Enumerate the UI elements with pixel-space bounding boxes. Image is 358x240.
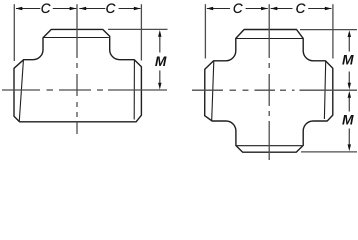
svg-text:M: M bbox=[155, 54, 167, 69]
arrowhead up (to top of branch) bbox=[158, 30, 161, 37]
cross horizontal center line bbox=[192, 89, 357, 91]
svg-text:M: M bbox=[342, 52, 354, 67]
tee branch weld-bevel line bbox=[43, 37, 109, 39]
cross vertical center line bbox=[268, 4, 270, 160]
tee left extension line bbox=[13, 4, 15, 61]
arrowhead to center (points right) bbox=[261, 7, 268, 10]
arrowhead up (to center line) bbox=[348, 91, 351, 98]
cross C dimension line, left half bbox=[207, 8, 268, 10]
tee body outline bbox=[14, 29, 141, 121]
cross bottom M dimension line bbox=[348, 98, 350, 145]
arrowhead down (to bottom of branch) bbox=[348, 144, 351, 151]
arrowhead down (to center line) bbox=[158, 83, 161, 90]
svg-text:C: C bbox=[106, 1, 116, 16]
tee horizontal center line bbox=[2, 89, 167, 91]
cross top-right extension line (for M) bbox=[300, 29, 357, 31]
cross bottom branch bevel line bbox=[236, 145, 302, 147]
tee right end bevel line bbox=[133, 60, 135, 119]
cross bottom-right extension line (for M) bbox=[301, 151, 357, 153]
tee left end bevel line bbox=[19, 60, 23, 121]
cross body outline bbox=[205, 30, 333, 153]
tee M dimension line bbox=[159, 36, 161, 84]
tee vertical center line bbox=[76, 4, 78, 134]
arrowhead from center (points left) bbox=[271, 7, 278, 10]
tee C dimension line, right half bbox=[79, 8, 140, 10]
tee top-right extension line (for M) bbox=[108, 28, 168, 30]
arrowhead up (to top of branch) bbox=[348, 30, 351, 37]
arrowhead down (to center line) bbox=[348, 83, 351, 90]
arrowhead right (points right) bbox=[134, 7, 141, 10]
tee C dimension line, left half bbox=[16, 8, 76, 10]
cross C dimension line, right half bbox=[271, 8, 332, 10]
tee right extension line bbox=[140, 4, 142, 60]
svg-text:C: C bbox=[41, 1, 51, 16]
arrowhead left (points left) bbox=[16, 7, 23, 10]
arrowhead from center (points left) bbox=[79, 7, 86, 10]
svg-text:C: C bbox=[233, 1, 243, 16]
arrowhead left (points left) bbox=[206, 7, 213, 10]
cross left end bevel line bbox=[212, 61, 214, 120]
cross top M dimension line bbox=[348, 36, 350, 83]
svg-text:C: C bbox=[296, 1, 306, 16]
cross right end bevel line bbox=[324, 61, 325, 119]
arrowhead right (points right) bbox=[325, 7, 332, 10]
arrowhead to center (points right) bbox=[70, 7, 77, 10]
svg-text:M: M bbox=[342, 112, 354, 127]
cross top branch bevel line bbox=[236, 38, 302, 40]
cross right extension line bbox=[332, 4, 334, 58]
cross left extension line bbox=[204, 4, 206, 58]
